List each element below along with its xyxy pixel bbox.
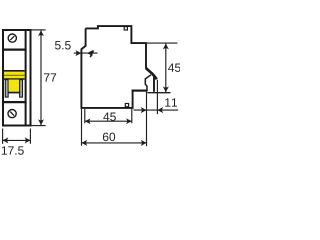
dim 45 right text [168,64,181,72]
dim 60 text [103,133,115,141]
dim 45 right arrow up [163,44,169,50]
front view right divider [25,29,27,127]
handle stub [90,50,93,57]
toggle bottom edge [8,92,20,94]
dim 45 right line [165,44,167,93]
dim 17.5 arrow left [3,137,9,143]
dim 17.5 left extension [2,129,4,144]
top notch square [124,27,127,30]
dim 11 text [165,98,177,106]
dim 77 text [44,73,56,81]
dim 45 bottom arrow right [126,118,132,124]
dim 45 bottom arrow left [85,118,91,124]
dim 45 right top extension [147,42,178,44]
dim 60 arrow left [82,140,88,146]
bottom terminal screw circle [8,110,16,118]
dim 45 bottom left extension [84,109,86,123]
clip tab line [147,92,170,94]
dim 17.5 arrow right [25,137,31,143]
dim 5.5 left segment [74,52,98,54]
dim 45 right arrow down [163,86,169,92]
yellow band [4,72,25,79]
right guide bar [20,80,23,97]
dim 45 bottom right extension [131,109,133,123]
dim 11 right arrow [157,107,163,113]
bottom screw slot [10,112,14,116]
side view body outline [81,26,154,108]
dim 77 bottom extension line [32,125,46,127]
dim 11 left segment [134,109,179,111]
dim 11 left extension [146,92,148,147]
dim 45 bottom text [103,113,116,121]
top terminal compartment line [2,48,27,50]
front view outer box [3,30,31,126]
dim 77 arrow up [38,30,44,36]
yellow toggle [9,80,19,92]
bottom terminal compartment line [2,101,27,103]
band bottom dark line [4,78,25,80]
dim 77 arrow down [38,119,44,125]
rail seat line [132,89,148,91]
dim 60 left extension [81,109,83,146]
dim 45 bottom line [85,120,132,122]
dim 17.5 right extension [29,129,31,144]
olive line in band [4,74,25,76]
dim 5.5 text [55,41,71,49]
dim 17.5 line [3,139,31,141]
dim 5.5 right arrow [87,50,93,56]
dim 60 arrow right [141,140,147,146]
dim 11 left arrow [141,107,147,113]
top terminal screw circle [8,34,16,42]
dim 77 line [40,30,42,125]
top screw slot [10,36,14,40]
dim 11 right extension [156,80,158,114]
dim 77 top extension line [32,29,46,31]
dim 60 line [82,142,147,144]
dim 5.5 left arrow [75,50,81,56]
clip inner notch [145,75,151,92]
bottom bump square [125,104,128,107]
din clip beak tooth [146,68,157,79]
dim 17.5 text [2,146,24,154]
handle area top line [4,70,25,72]
left guide bar [5,80,8,97]
